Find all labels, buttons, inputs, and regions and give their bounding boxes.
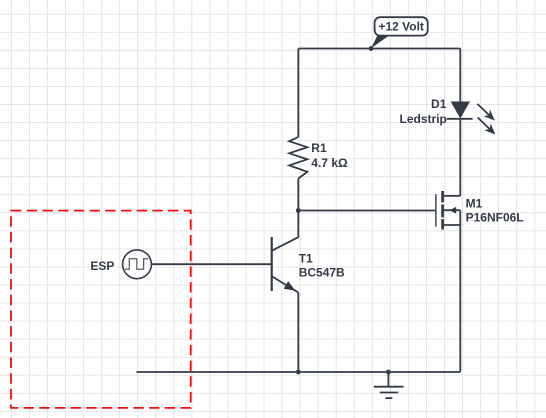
transistor T1 base bar xyxy=(271,237,273,291)
svg-text:D1: D1 xyxy=(431,97,447,111)
node junction dot (ground tap) xyxy=(386,370,391,375)
wire bottom rail xyxy=(137,371,461,373)
svg-text:4.7 kΩ: 4.7 kΩ xyxy=(311,156,348,170)
node junction dot (emitter to bottom rail) xyxy=(296,370,301,375)
wire emitter down xyxy=(297,293,299,373)
LED light arrow 2 xyxy=(478,117,496,134)
svg-text:Ledstrip: Ledstrip xyxy=(400,112,447,126)
ESP signal source circle xyxy=(123,250,152,279)
wire gate (node to M1 gate) xyxy=(298,210,436,212)
svg-text:P16NF06L: P16NF06L xyxy=(466,211,524,225)
svg-text:BC547B: BC547B xyxy=(299,266,345,280)
label M1 P16NF06L xyxy=(466,196,524,224)
svg-text:R1: R1 xyxy=(311,141,327,155)
mosfet M1 source lead xyxy=(444,224,460,226)
wire right vertical (top rail to LED) xyxy=(459,49,461,102)
ESP square wave icon xyxy=(125,259,148,270)
red dashed enclosure (ESP module boundary) xyxy=(11,211,191,408)
mosfet M1 body lead with arrow xyxy=(444,207,460,214)
wire LED to M1 drain xyxy=(459,119,461,196)
label R1 value 4.7 kOhm xyxy=(311,141,348,170)
wire base (ESP to T1) xyxy=(152,263,272,265)
transistor T1 emitter lead with arrow xyxy=(272,276,298,292)
+12 Volt callout box xyxy=(371,17,428,48)
node junction dot (gate branch) xyxy=(296,208,301,213)
ground xyxy=(374,372,404,398)
mosfet M1 channel bars xyxy=(441,191,444,230)
mosfet M1 drain lead xyxy=(444,195,460,197)
wire left vertical (top rail to R1) xyxy=(297,49,299,138)
resistor R1 xyxy=(289,137,307,178)
node junction dot (+12V tap) xyxy=(369,46,374,51)
wire R1 bottom to node xyxy=(297,179,299,211)
svg-text:M1: M1 xyxy=(466,196,483,210)
label T1 BC547B xyxy=(299,251,345,279)
wire top rail xyxy=(298,48,460,50)
svg-text:T1: T1 xyxy=(299,251,313,265)
svg-text:ESP: ESP xyxy=(90,259,114,273)
label D1 Ledstrip xyxy=(400,97,447,126)
wire M1 source down to bottom rail xyxy=(459,210,461,372)
label ESP xyxy=(90,259,114,273)
LED D1 cathode bar xyxy=(447,118,473,120)
mosfet M1 gate bar xyxy=(435,194,437,226)
svg-text:+12 Volt: +12 Volt xyxy=(378,20,423,34)
LED light arrow 1 xyxy=(477,104,494,121)
transistor T1 collector lead xyxy=(272,211,298,251)
LED D1 triangle xyxy=(451,102,470,119)
